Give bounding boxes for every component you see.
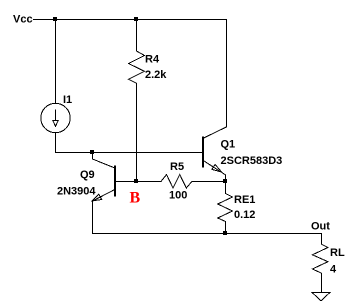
svg-text:2SCR583D3: 2SCR583D3 bbox=[221, 155, 283, 167]
svg-text:I1: I1 bbox=[63, 94, 72, 106]
svg-text:Q9: Q9 bbox=[80, 169, 95, 181]
svg-text:R5: R5 bbox=[170, 161, 184, 173]
svg-text:0.12: 0.12 bbox=[234, 209, 255, 221]
svg-text:2N3904: 2N3904 bbox=[57, 186, 96, 198]
svg-text:Q1: Q1 bbox=[221, 139, 236, 151]
svg-text:B: B bbox=[130, 189, 141, 206]
svg-text:RL: RL bbox=[330, 247, 345, 259]
svg-text:2.2k: 2.2k bbox=[145, 69, 167, 81]
svg-text:R4: R4 bbox=[145, 54, 160, 66]
svg-text:100: 100 bbox=[169, 190, 187, 202]
svg-text:Vcc: Vcc bbox=[13, 14, 33, 26]
svg-text:Out: Out bbox=[311, 221, 330, 233]
svg-text:4: 4 bbox=[330, 264, 337, 276]
svg-text:RE1: RE1 bbox=[234, 194, 255, 206]
